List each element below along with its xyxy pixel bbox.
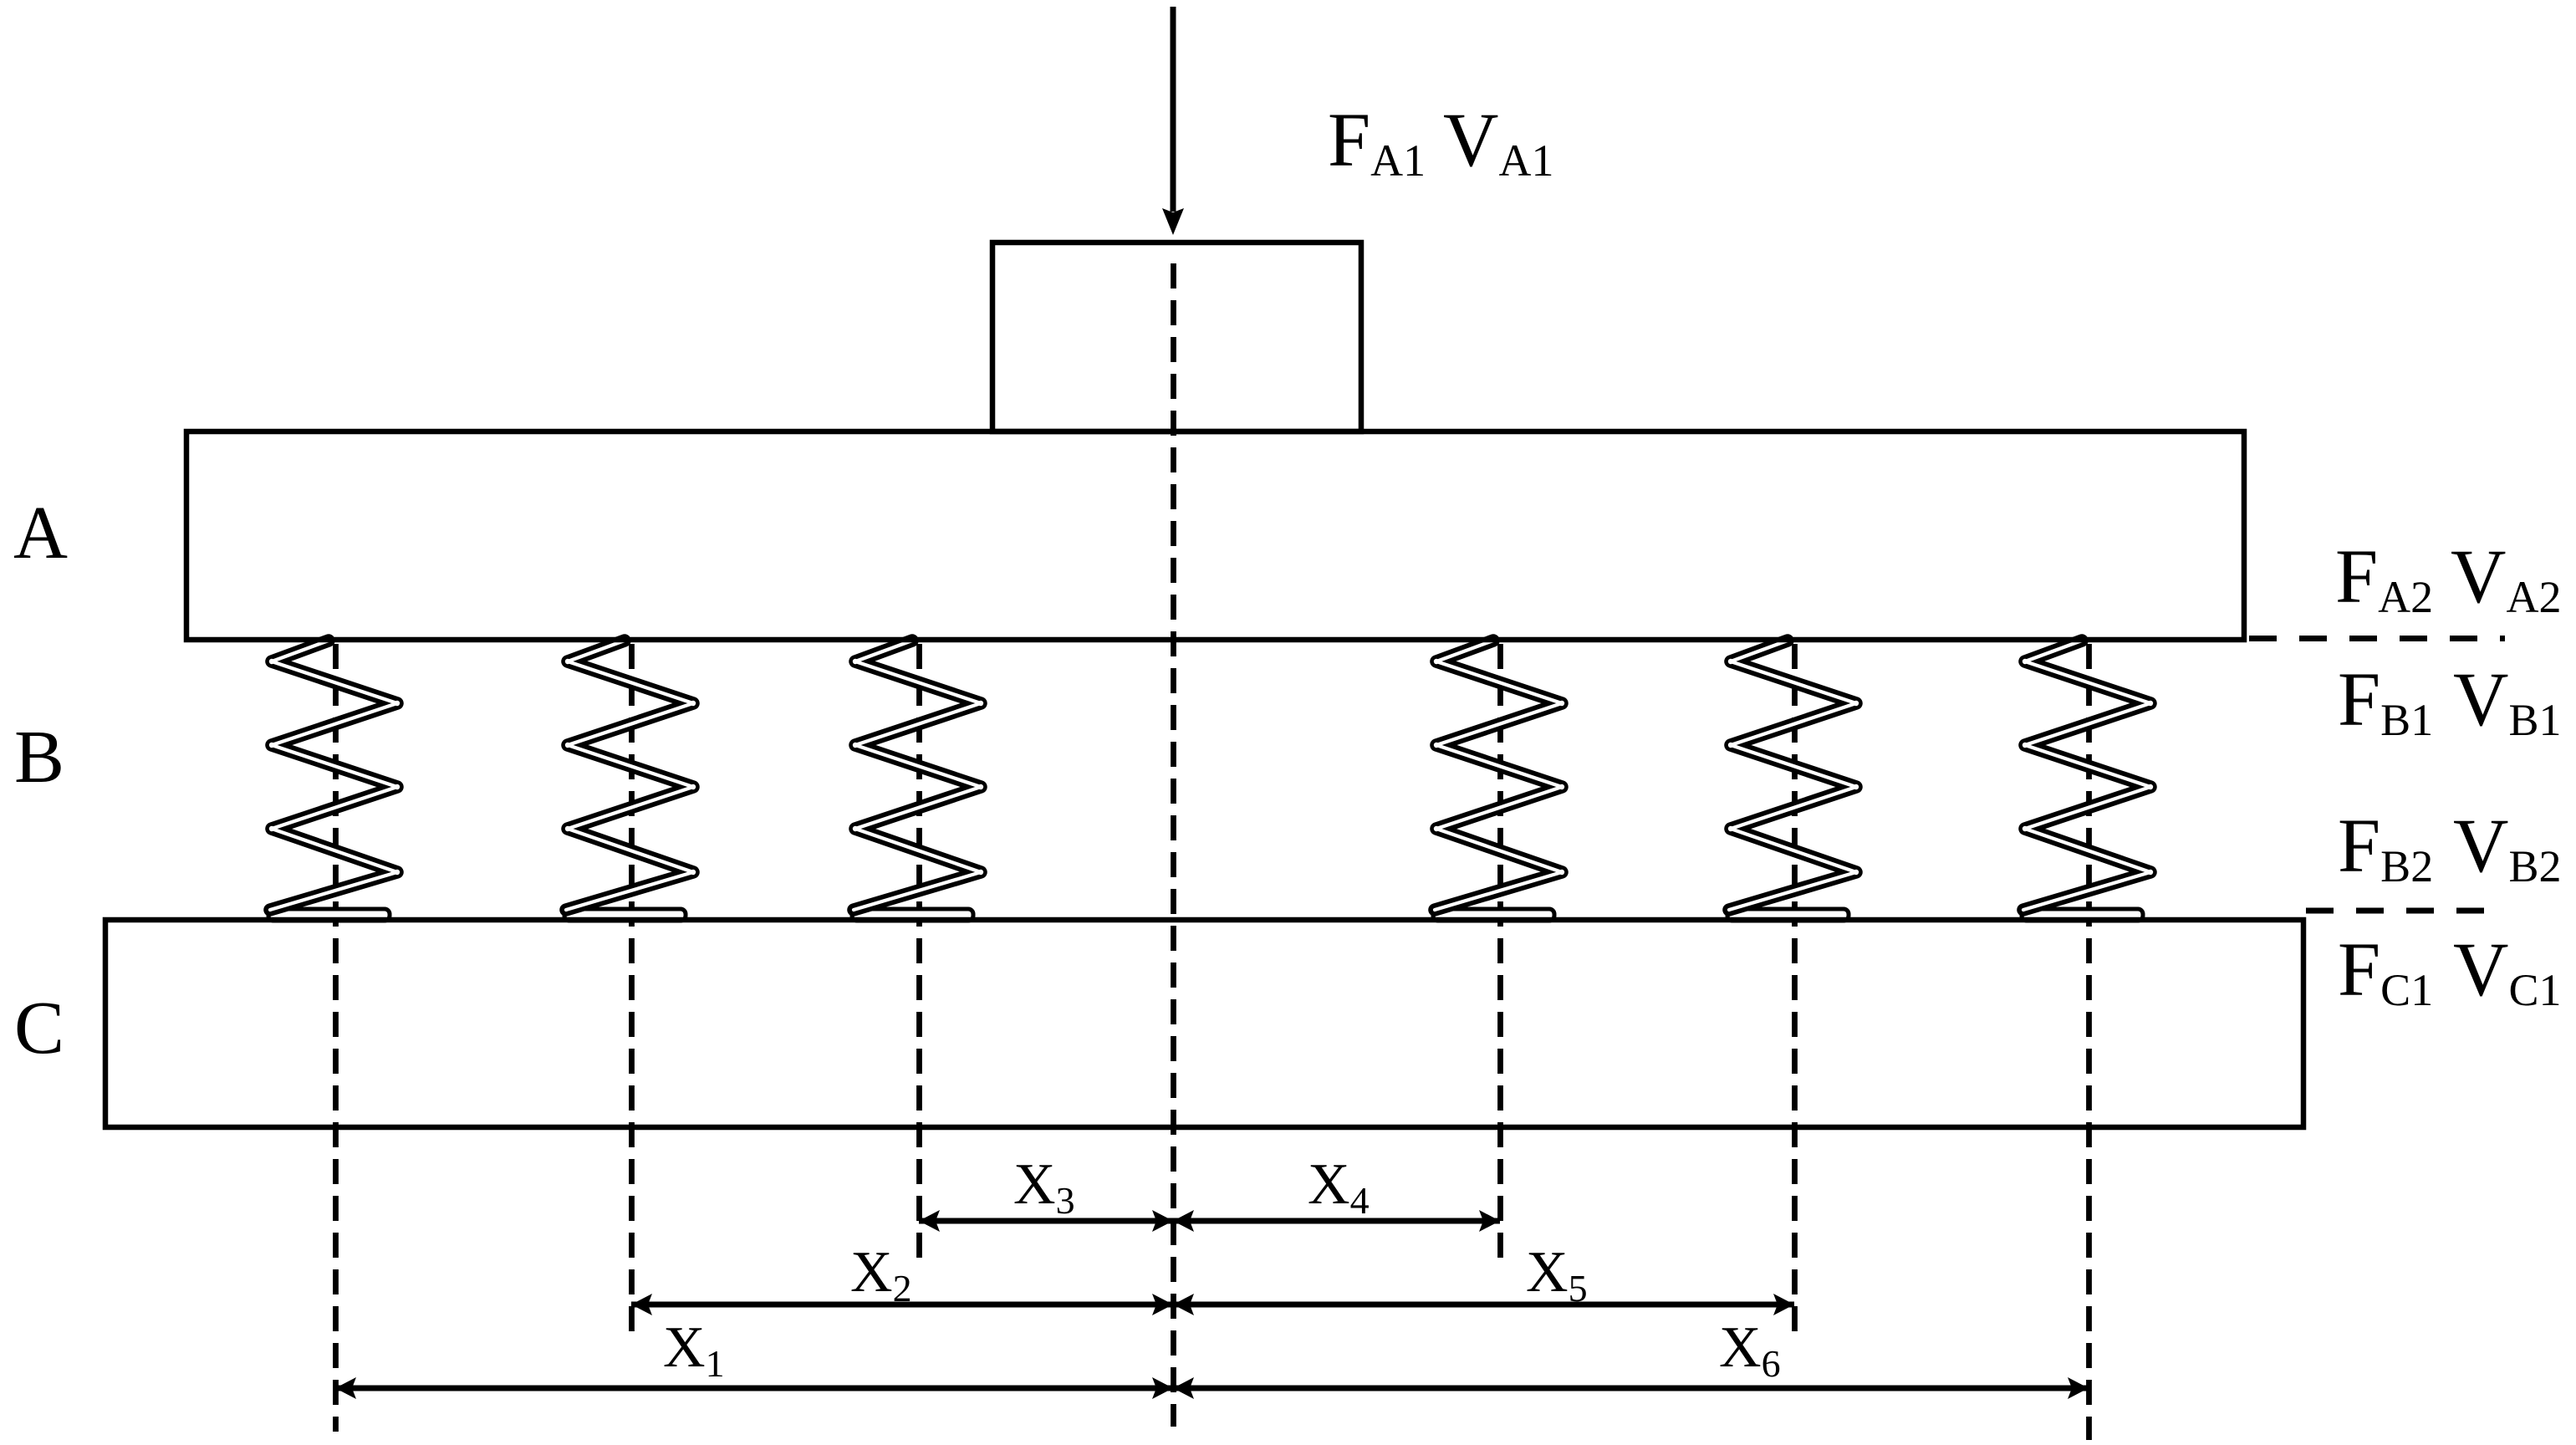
spring S3 coil — [854, 641, 981, 910]
dashed axis line of spring S6 — [2086, 644, 2092, 1440]
dimension X3 line — [919, 1218, 1173, 1224]
load block on plate A — [992, 243, 1361, 431]
spring S1 coil — [270, 641, 397, 910]
svg-text:C: C — [14, 987, 64, 1070]
dashed extension line at plate C top (F_B2 level) — [2306, 908, 2502, 914]
svg-text:X4: X4 — [1308, 1152, 1370, 1222]
svg-text:A: A — [13, 492, 68, 574]
svg-text:X2: X2 — [850, 1240, 912, 1310]
svg-text:X1: X1 — [663, 1315, 725, 1385]
svg-text:VB2: VB2 — [2453, 803, 2561, 891]
dashed axis line of spring S5 — [1792, 644, 1798, 1343]
svg-text:X3: X3 — [1013, 1152, 1075, 1222]
spring S2 coil — [566, 641, 693, 910]
force arrow F_A1 — [1171, 7, 1176, 212]
spring S6 coil — [2023, 641, 2150, 910]
dashed axis line of spring S3 — [916, 644, 922, 1261]
svg-text:FB1: FB1 — [2338, 656, 2433, 745]
dashed axis line of spring S2 — [629, 644, 635, 1343]
svg-text:VA1: VA1 — [1443, 97, 1553, 186]
svg-text:X5: X5 — [1526, 1240, 1588, 1310]
plate A — [186, 431, 2244, 640]
svg-text:VB1: VB1 — [2453, 656, 2561, 745]
spring S1 foot plate — [268, 909, 390, 921]
spring S5 foot plate — [1727, 909, 1849, 921]
spring S4 coil — [1435, 641, 1562, 910]
spring S2 foot plate — [564, 909, 686, 921]
svg-text:FC1: FC1 — [2338, 927, 2433, 1015]
dimension X6 line — [1173, 1386, 2089, 1391]
svg-text:FA2: FA2 — [2335, 534, 2433, 622]
spring S6 foot plate — [2022, 909, 2143, 921]
dimension X2 line — [631, 1302, 1173, 1308]
dimension X4 line — [1173, 1218, 1500, 1224]
svg-text:B: B — [14, 716, 64, 799]
dashed axis line of spring S4 — [1497, 644, 1503, 1261]
svg-text:FB2: FB2 — [2338, 803, 2433, 891]
spring S3 foot plate — [852, 909, 973, 921]
dimension X5 line — [1173, 1302, 1794, 1308]
spring S4 foot plate — [1433, 909, 1554, 921]
svg-text:VC1: VC1 — [2453, 927, 2561, 1015]
svg-text:VA2: VA2 — [2451, 534, 2561, 622]
plate C — [105, 920, 2303, 1127]
dimension X1 line — [335, 1386, 1173, 1391]
svg-text:FA1: FA1 — [1328, 97, 1426, 186]
svg-text:X6: X6 — [1719, 1315, 1781, 1385]
dashed extension line at plate A bottom (F_A2 level) — [2249, 636, 2505, 641]
dashed axis line of spring S1 — [333, 644, 339, 1432]
center dashed axis line — [1171, 263, 1176, 1427]
spring S5 coil — [1729, 641, 1856, 910]
